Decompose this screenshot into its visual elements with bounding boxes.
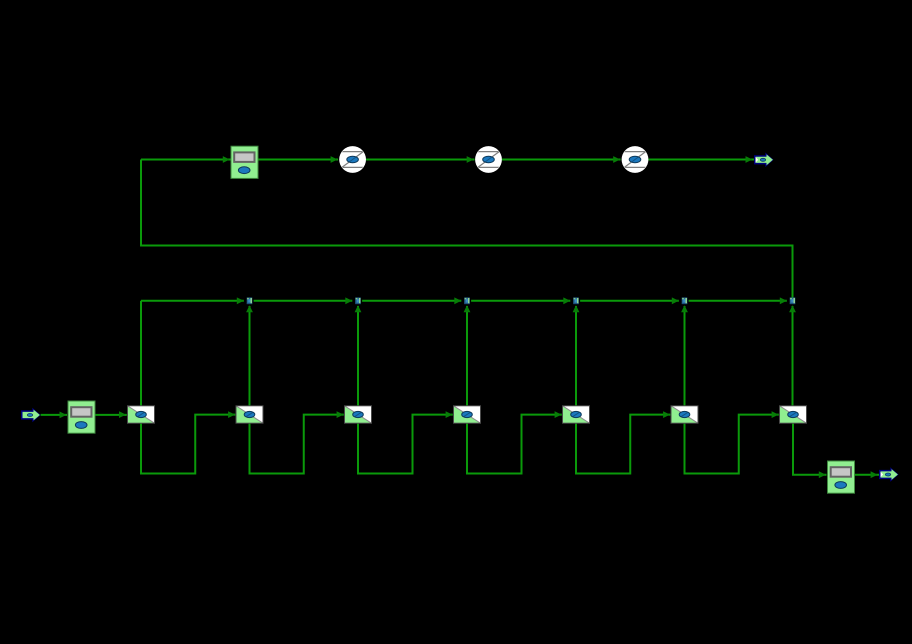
relay actor B2	[236, 406, 263, 423]
monitor actor M3	[828, 461, 855, 493]
merge node N2	[355, 298, 361, 305]
wire relay B3 up to merge N2	[357, 306, 359, 406]
arrowhead into S3	[613, 156, 620, 163]
wire relay B3 to relay B4	[358, 415, 453, 474]
wire M3 to output port OUT2	[855, 474, 879, 476]
wire merge bus segment N2 to N3	[362, 300, 461, 302]
merge node N3	[464, 298, 470, 305]
arrowhead bus into N2	[345, 297, 352, 304]
wire relay B5 to relay B6	[576, 415, 670, 474]
arrowhead into B5	[555, 411, 562, 418]
monitor actor M2	[68, 401, 95, 433]
input port IN	[21, 408, 41, 423]
arrowhead bus into N5	[672, 297, 679, 304]
wire M2 to relay B1	[95, 414, 127, 416]
wire S1 to S2	[366, 159, 475, 161]
wire relay B7 up to merge N6	[792, 306, 794, 406]
arrowhead into S1	[331, 156, 338, 163]
wire merge bus segment B1 out to N1	[141, 300, 244, 302]
wire M1 to server S1	[258, 159, 338, 161]
wire merge bus segment N5 to N6	[689, 300, 787, 302]
arrowhead into M1	[223, 156, 230, 163]
relay actor B7	[780, 406, 807, 423]
wire relay B6 to relay B7	[685, 415, 779, 474]
wire feedback loop from merge N6	[141, 160, 793, 299]
arrowhead into S2	[467, 156, 474, 163]
arrowhead into B6	[663, 411, 670, 418]
relay actor B6	[671, 406, 698, 423]
arrowhead up into N6	[789, 305, 796, 312]
wire relay B6 up to merge N5	[684, 306, 686, 406]
wire relay B2 up to merge N1	[249, 306, 251, 406]
relay actor B1	[128, 406, 155, 423]
arrowhead up into N2	[355, 305, 362, 312]
relay actor B3	[345, 406, 372, 423]
arrowhead into OUT2	[871, 471, 878, 478]
arrowhead bus into N6	[780, 297, 787, 304]
merge node N6	[790, 298, 796, 305]
server actor S1	[339, 146, 366, 173]
relay actor B4	[454, 406, 481, 423]
wire input port to monitor M2	[41, 414, 67, 416]
arrowhead up into N4	[573, 305, 580, 312]
arrowhead bus into N4	[563, 297, 570, 304]
wire bus corner down to relay B1	[140, 301, 142, 406]
wire merge bus segment N1 to N2	[254, 300, 353, 302]
wire relay B7 to monitor M3	[793, 423, 827, 475]
wire relay B1 to relay B2	[141, 415, 235, 474]
wire merge bus segment N3 to N4	[471, 300, 570, 302]
arrowhead into M3	[819, 471, 826, 478]
arrowhead up into N5	[681, 305, 688, 312]
merge node N1	[247, 298, 253, 305]
monitor actor M1	[231, 146, 258, 178]
server actor S3	[622, 146, 649, 173]
wire S2 to S3	[502, 159, 621, 161]
merge node N5	[682, 298, 688, 305]
merge node N4	[573, 298, 579, 305]
wire merge bus segment N4 to N5	[580, 300, 679, 302]
arrowhead into B4	[446, 411, 453, 418]
wire relay B4 to relay B5	[467, 415, 562, 474]
wire relay B2 to relay B3	[250, 415, 344, 474]
arrowhead into B2	[228, 411, 235, 418]
wire S3 to output port OUT1	[648, 159, 754, 161]
arrowhead up into N1	[246, 305, 253, 312]
arrowhead into OUT1	[746, 156, 753, 163]
wire relay B5 up to merge N4	[575, 306, 577, 406]
arrowhead into M2	[60, 412, 67, 419]
relay actor B5	[563, 406, 590, 423]
arrowhead bus into N3	[454, 297, 461, 304]
output port OUT1	[754, 153, 774, 168]
wire feedback to monitor M1	[141, 159, 231, 161]
arrowhead into B7	[772, 411, 779, 418]
output port OUT2	[879, 467, 899, 482]
arrowhead up into N3	[464, 305, 471, 312]
arrowhead bus into N1	[237, 297, 244, 304]
arrowhead into B3	[337, 411, 344, 418]
arrowhead into B1	[119, 411, 126, 418]
server actor S2	[475, 146, 502, 173]
wire relay B4 up to merge N3	[466, 306, 468, 406]
